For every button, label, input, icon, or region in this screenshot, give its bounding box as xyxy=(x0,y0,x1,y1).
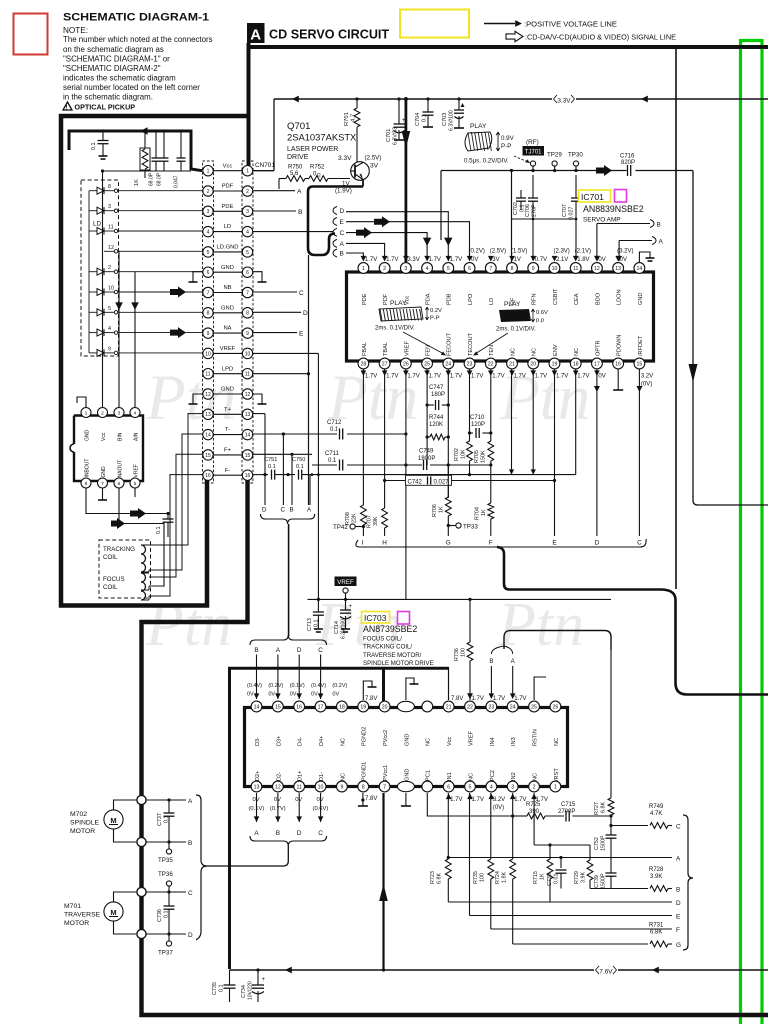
svg-text:R735: R735 xyxy=(473,871,479,884)
svg-text:23: 23 xyxy=(467,361,473,367)
resistor R715 xyxy=(549,845,551,859)
photodiode array dashed box xyxy=(81,180,119,356)
svg-text:DRIVE: DRIVE xyxy=(287,154,309,161)
svg-text:TP30: TP30 xyxy=(568,152,583,159)
wire 7.6V bus to Vcc IC703 xyxy=(384,667,449,670)
svg-text:3V: 3V xyxy=(370,163,379,170)
svg-text:INBOUT: INBOUT xyxy=(84,459,90,478)
wire LD row xyxy=(253,231,333,233)
svg-text:16: 16 xyxy=(615,361,621,367)
wire pin24 drop xyxy=(447,369,449,498)
svg-text:1.7V: 1.7V xyxy=(514,696,526,702)
svg-text:12: 12 xyxy=(245,392,251,398)
capacitor 0.1 coil xyxy=(166,512,169,515)
svg-text:27: 27 xyxy=(382,361,388,367)
svg-text:17: 17 xyxy=(318,704,324,710)
svg-text:indicates the schematic diagra: indicates the schematic diagram xyxy=(63,73,176,82)
capacitor C714 xyxy=(345,599,347,610)
wire PVcc1 7.6V xyxy=(382,793,384,970)
svg-text:3.3V: 3.3V xyxy=(407,257,419,263)
wire net A to pin2 xyxy=(346,243,385,260)
svg-text:(2.1V): (2.1V) xyxy=(575,249,591,255)
svg-text:C702: C702 xyxy=(513,202,519,215)
svg-text:0.1: 0.1 xyxy=(156,527,162,535)
svg-text:B: B xyxy=(676,887,680,894)
motor bus pads xyxy=(137,795,146,804)
svg-text:C752: C752 xyxy=(594,837,600,850)
svg-text:A: A xyxy=(276,647,281,654)
svg-text:LD: LD xyxy=(224,224,231,230)
svg-text:0.9V: 0.9V xyxy=(501,135,515,142)
VREF label box xyxy=(335,577,357,587)
svg-text:TECOUT: TECOUT xyxy=(468,332,474,356)
capacitor C703 xyxy=(458,99,460,110)
svg-text:2: 2 xyxy=(246,189,249,195)
svg-text:3.9K: 3.9K xyxy=(581,872,587,883)
svg-text:5: 5 xyxy=(469,784,472,790)
wire F- drop xyxy=(309,475,311,505)
svg-text:100: 100 xyxy=(480,873,486,882)
svg-text:C: C xyxy=(318,830,323,837)
wire pin NC2 drop xyxy=(533,793,535,845)
svg-text:12: 12 xyxy=(275,784,281,790)
svg-text:26: 26 xyxy=(403,361,409,367)
svg-text:22: 22 xyxy=(467,704,473,710)
svg-text:R750: R750 xyxy=(288,165,303,171)
svg-text:TEN: TEN xyxy=(489,345,495,356)
svg-text:0.6V: 0.6V xyxy=(536,310,548,316)
photodiode row wires to connector xyxy=(118,190,203,192)
svg-text:B: B xyxy=(276,830,280,837)
wire op-amp pin5 vref xyxy=(134,488,136,497)
op-amp pin4 wire xyxy=(134,272,136,407)
svg-text:C701: C701 xyxy=(386,129,392,142)
svg-text:CEA: CEA xyxy=(574,293,580,305)
svg-text:7: 7 xyxy=(383,784,386,790)
wire 7.6V feed thick loop xyxy=(230,668,384,969)
svg-text:CD SERVO CIRCUIT: CD SERVO CIRCUIT xyxy=(269,28,389,42)
svg-text:C751: C751 xyxy=(264,457,277,463)
test point TP35 xyxy=(168,842,170,849)
svg-text:MOTOR: MOTOR xyxy=(64,920,89,927)
svg-text:8: 8 xyxy=(246,311,249,317)
svg-text:2: 2 xyxy=(383,266,386,272)
svg-text:28: 28 xyxy=(361,361,367,367)
svg-text:21: 21 xyxy=(509,361,515,367)
resistor R708 xyxy=(361,505,367,525)
svg-text:C714: C714 xyxy=(334,621,340,634)
svg-text:B: B xyxy=(340,251,344,258)
svg-text:6: 6 xyxy=(246,270,249,276)
capacitor C735 xyxy=(229,970,231,985)
svg-text:F: F xyxy=(676,927,680,934)
svg-text:D: D xyxy=(297,830,302,837)
svg-text:D: D xyxy=(340,208,345,215)
svg-text:0V: 0V xyxy=(311,692,318,698)
IC701 yellow label box xyxy=(579,190,611,202)
svg-text:150K: 150K xyxy=(480,450,486,463)
resistor R705 xyxy=(488,441,494,461)
svg-text:P-P: P-P xyxy=(501,143,511,150)
svg-text:C707: C707 xyxy=(562,204,568,217)
svg-text:VREF: VREF xyxy=(468,730,474,746)
svg-text:9: 9 xyxy=(340,784,343,790)
svg-text:I: I xyxy=(362,540,364,547)
svg-text::POSITIVE VOLTAGE LINE: :POSITIVE VOLTAGE LINE xyxy=(524,19,617,28)
svg-text:68.0P: 68.0P xyxy=(157,172,163,186)
svg-text:TRACKING COIL/: TRACKING COIL/ xyxy=(363,644,412,651)
svg-text:TP33: TP33 xyxy=(463,524,478,531)
op-amp IC701 body xyxy=(347,272,654,361)
op-amp top pins xyxy=(81,408,91,418)
svg-text:C715: C715 xyxy=(561,802,576,808)
svg-text:1.7V: 1.7V xyxy=(450,374,462,380)
wire pin18 drop xyxy=(575,369,577,475)
svg-text:25: 25 xyxy=(531,704,537,710)
svg-text:COIL: COIL xyxy=(103,584,118,591)
wire 7.6V rail xyxy=(230,969,768,971)
svg-text:10: 10 xyxy=(108,286,114,292)
op-amp pin1 hook xyxy=(77,397,86,408)
svg-text:R752: R752 xyxy=(310,165,325,171)
svg-text:0.01: 0.01 xyxy=(554,874,560,885)
svg-text:ENV: ENV xyxy=(553,344,559,356)
svg-text:TP37: TP37 xyxy=(158,950,173,957)
svg-text:1.7V: 1.7V xyxy=(535,374,547,380)
capacitor C736 xyxy=(167,890,170,893)
svg-text:FOCUS COIL/: FOCUS COIL/ xyxy=(363,635,402,642)
svg-text:1.7V: 1.7V xyxy=(429,374,441,380)
wire PDE B xyxy=(253,210,296,212)
svg-text:22K: 22K xyxy=(351,513,357,523)
svg-text:B: B xyxy=(188,840,192,847)
wire PDF A xyxy=(253,190,295,192)
svg-text:D: D xyxy=(595,540,600,547)
row C right xyxy=(611,825,648,827)
row D xyxy=(448,901,672,903)
svg-text:3.3V: 3.3V xyxy=(338,155,352,162)
svg-text:C716: C716 xyxy=(620,154,635,160)
wire pin PC2 drop xyxy=(490,793,492,859)
svg-text:7.8V: 7.8V xyxy=(451,696,463,702)
svg-text:2: 2 xyxy=(207,189,210,195)
svg-text:D4-: D4- xyxy=(298,737,304,746)
wire pin IN1 drop xyxy=(447,793,449,858)
capacitor 68.0P a xyxy=(155,131,157,158)
svg-text:6: 6 xyxy=(207,270,210,276)
svg-text:C734: C734 xyxy=(241,985,247,998)
svg-text:15: 15 xyxy=(205,453,211,459)
svg-text:4: 4 xyxy=(134,410,137,416)
svg-text:TBAL: TBAL xyxy=(383,342,389,356)
svg-text:0.1: 0.1 xyxy=(268,464,276,470)
svg-text:D1-: D1- xyxy=(319,772,325,781)
svg-text:C737: C737 xyxy=(157,813,163,826)
svg-text:4: 4 xyxy=(490,784,493,790)
svg-text:CN701: CN701 xyxy=(255,162,275,169)
row A xyxy=(448,857,672,859)
svg-text:R715: R715 xyxy=(533,871,539,884)
svg-text:T-: T- xyxy=(225,427,230,433)
svg-text:10V/220: 10V/220 xyxy=(248,981,254,1000)
capacitor 0.1 optical xyxy=(102,131,104,140)
svg-text:(0.2V): (0.2V) xyxy=(268,683,283,689)
ground op-amp pin7 xyxy=(102,488,104,500)
wire op-amp pin8 out xyxy=(86,488,168,514)
tracking coil xyxy=(141,545,146,572)
wire pin19 drop xyxy=(554,369,556,536)
svg-text:A: A xyxy=(188,798,193,805)
svg-text:PC2: PC2 xyxy=(490,770,496,781)
svg-text:C: C xyxy=(281,507,286,514)
svg-text:0V: 0V xyxy=(471,257,478,263)
svg-text:0.1: 0.1 xyxy=(164,816,170,824)
wire thick 3.3V to IC701 Vcc pin3 xyxy=(404,99,407,262)
svg-text:0.047: 0.047 xyxy=(174,175,180,188)
svg-text:Vcc: Vcc xyxy=(101,432,107,441)
svg-text:0.1: 0.1 xyxy=(164,911,170,919)
svg-text:D1+: D1+ xyxy=(298,771,304,781)
svg-text:1.7V: 1.7V xyxy=(429,257,441,263)
coil box dashed xyxy=(99,540,151,598)
svg-text:1.7V: 1.7V xyxy=(556,374,568,380)
svg-text:C: C xyxy=(188,890,193,897)
motor driver IC703 body xyxy=(245,708,568,787)
ground IC703 PGND1 xyxy=(362,793,364,806)
svg-text:6: 6 xyxy=(468,266,471,272)
svg-text:D: D xyxy=(262,507,267,514)
svg-text:C749: C749 xyxy=(419,449,434,455)
wire row 474 extension xyxy=(318,474,575,476)
svg-text:4: 4 xyxy=(207,230,210,236)
svg-text:PDF: PDF xyxy=(222,184,234,190)
svg-text:13: 13 xyxy=(245,412,251,418)
resistor R727 xyxy=(608,798,614,815)
svg-text:11: 11 xyxy=(205,372,210,378)
svg-text:D: D xyxy=(188,932,193,939)
svg-text:7: 7 xyxy=(101,481,104,487)
wire thick loop right xyxy=(497,547,768,695)
capacitor C704 xyxy=(427,99,429,112)
svg-text:MOTOR: MOTOR xyxy=(70,828,95,835)
svg-text:/RST: /RST xyxy=(554,768,560,781)
svg-text:3: 3 xyxy=(246,209,249,215)
svg-text:100: 100 xyxy=(461,648,467,657)
svg-text::CD-DA/V-CD(AUDIO & VIDEO) SIG: :CD-DA/V-CD(AUDIO & VIDEO) SIGNAL LINE xyxy=(525,32,676,41)
wire Q701 collector to laser drive xyxy=(362,180,364,187)
connector CN701 dashed outlines xyxy=(203,161,214,483)
wire VREF rail xyxy=(308,598,612,600)
wire motor rows xyxy=(146,799,186,801)
svg-text:F-: F- xyxy=(225,468,231,474)
svg-text:C: C xyxy=(318,647,323,654)
svg-text:9: 9 xyxy=(207,331,210,337)
svg-text:14: 14 xyxy=(205,433,211,439)
svg-text:13: 13 xyxy=(254,784,260,790)
capacitor 0.047 xyxy=(180,131,182,158)
svg-text:B: B xyxy=(657,222,661,229)
svg-text:1.7V: 1.7V xyxy=(386,374,398,380)
svg-text:1500P: 1500P xyxy=(601,873,607,889)
svg-text:6.3V/100: 6.3V/100 xyxy=(341,619,347,639)
svg-text:7.6V: 7.6V xyxy=(599,968,613,975)
resistor R723 xyxy=(447,856,450,859)
net letters DECAB brace xyxy=(333,207,337,215)
svg-text:GND: GND xyxy=(638,293,644,305)
svg-text:C: C xyxy=(676,824,681,831)
svg-text:Vcc: Vcc xyxy=(447,736,453,746)
svg-text:7: 7 xyxy=(207,290,210,296)
svg-text:5: 5 xyxy=(246,250,249,256)
svg-text:VREF: VREF xyxy=(220,346,236,352)
svg-text:C747: C747 xyxy=(429,385,444,391)
svg-text:17: 17 xyxy=(594,361,600,367)
svg-text:1.7V: 1.7V xyxy=(386,257,398,263)
svg-text:(2.3V): (2.3V) xyxy=(553,249,569,255)
svg-text:8: 8 xyxy=(511,266,514,272)
svg-text:6: 6 xyxy=(447,784,450,790)
ground pin16 xyxy=(617,369,619,390)
capacitor C702 C706 C707 group xyxy=(511,171,513,263)
svg-text:SPINDLE: SPINDLE xyxy=(70,820,100,827)
svg-text:1.7V: 1.7V xyxy=(472,797,484,803)
svg-text:GND: GND xyxy=(221,305,234,311)
wire pin27 drop xyxy=(384,369,386,508)
resistor R735 xyxy=(488,859,494,879)
svg-text:C712: C712 xyxy=(327,420,342,426)
svg-text:1.7V: 1.7V xyxy=(577,374,589,380)
svg-text:R736: R736 xyxy=(454,648,460,661)
svg-text:GND: GND xyxy=(404,734,410,746)
svg-text:C: C xyxy=(340,230,345,237)
svg-text:0.027: 0.027 xyxy=(434,480,450,486)
wire PC1 stub xyxy=(427,793,512,816)
svg-text:16: 16 xyxy=(205,473,211,479)
label 3.3V bracket xyxy=(552,95,576,104)
svg-text:R731: R731 xyxy=(649,923,664,929)
svg-text:IC703: IC703 xyxy=(364,613,387,623)
svg-text:C704: C704 xyxy=(415,113,421,126)
svg-text:25: 25 xyxy=(424,361,430,367)
svg-text:1.8V: 1.8V xyxy=(577,257,589,263)
svg-text:12: 12 xyxy=(205,392,211,398)
svg-text:0V: 0V xyxy=(247,692,254,698)
focus coil xyxy=(141,573,146,600)
svg-text:H: H xyxy=(382,540,387,547)
svg-text:0V: 0V xyxy=(598,374,605,380)
svg-text:20: 20 xyxy=(530,361,536,367)
row B xyxy=(590,888,648,890)
capacitor C737 xyxy=(167,798,170,801)
svg-text:0.1: 0.1 xyxy=(91,143,97,151)
transistor Q701 xyxy=(351,162,370,181)
wire 3.3V rail xyxy=(274,98,768,100)
svg-text:PVcc1: PVcc1 xyxy=(383,765,389,781)
svg-text:1.7V: 1.7V xyxy=(407,374,419,380)
yellow highlight box header xyxy=(400,10,469,38)
svg-text:13: 13 xyxy=(205,412,211,418)
wire pin NC5 drop xyxy=(469,793,471,916)
svg-text:M701: M701 xyxy=(64,903,81,910)
warning triangle OPTICAL PICKUP xyxy=(63,102,72,110)
svg-text:B: B xyxy=(489,658,493,665)
IC703 yellow label box xyxy=(362,612,390,624)
svg-text:C750: C750 xyxy=(292,457,305,463)
svg-text:TRACKING: TRACKING xyxy=(103,546,135,553)
IC703 magenta box xyxy=(398,612,410,625)
svg-text:1: 1 xyxy=(85,410,88,416)
svg-text:(0V): (0V) xyxy=(493,805,504,811)
photo resistor 1K xyxy=(140,148,150,170)
svg-text:COIL: COIL xyxy=(103,554,118,561)
svg-text:in the schematic diagram.: in the schematic diagram. xyxy=(63,93,153,102)
svg-text:10K: 10K xyxy=(461,449,467,459)
svg-text:M: M xyxy=(110,908,116,917)
svg-text:6: 6 xyxy=(118,481,121,487)
wire F- vertical upper xyxy=(317,353,319,474)
svg-text:IN2: IN2 xyxy=(511,772,517,781)
svg-text:3.2V: 3.2V xyxy=(493,797,505,803)
svg-text:PGND1: PGND1 xyxy=(362,762,368,781)
svg-text:7.8V: 7.8V xyxy=(365,796,377,802)
svg-text:1.7V: 1.7V xyxy=(514,374,526,380)
svg-text:BIN: BIN xyxy=(117,432,123,441)
svg-text:M: M xyxy=(110,816,116,825)
svg-text:C: C xyxy=(299,290,304,297)
label 0.9V P-P xyxy=(496,132,500,151)
row E xyxy=(470,915,673,917)
svg-text:R704: R704 xyxy=(475,507,481,520)
wire T+ drop xyxy=(264,414,266,505)
svg-text:R706: R706 xyxy=(432,504,438,517)
svg-text:NA: NA xyxy=(223,326,231,332)
wire net B to pin1 xyxy=(346,253,363,260)
svg-text:R705: R705 xyxy=(474,450,480,463)
svg-text:18: 18 xyxy=(339,704,345,710)
svg-text:(0.4V): (0.4V) xyxy=(247,683,262,689)
svg-text:11: 11 xyxy=(245,372,250,378)
motor M702 xyxy=(104,810,123,829)
svg-text:13: 13 xyxy=(615,266,621,272)
resistor R706 xyxy=(447,465,449,497)
wire pin25 drop xyxy=(426,369,428,465)
svg-text:24: 24 xyxy=(445,361,451,367)
resistor R729 xyxy=(587,860,593,880)
svg-text:D2+: D2+ xyxy=(255,771,261,781)
svg-text:PDA: PDA xyxy=(425,293,431,305)
resistor R702 xyxy=(467,441,473,461)
svg-text:R727: R727 xyxy=(594,802,600,815)
wire op-amp pin6 out xyxy=(119,488,164,586)
svg-text:0.2V: 0.2V xyxy=(430,308,442,314)
wire T- drop xyxy=(282,434,284,505)
svg-text:PDOWN: PDOWN xyxy=(617,335,623,356)
wire net C to pin4 xyxy=(346,233,427,258)
svg-text:8: 8 xyxy=(362,784,365,790)
svg-text:D4+: D4+ xyxy=(319,736,325,746)
svg-text:Ptn: Ptn xyxy=(145,591,232,659)
wire RSTIN stub xyxy=(534,677,546,700)
svg-text:E: E xyxy=(676,914,680,921)
capacitor C742 xyxy=(385,480,406,482)
svg-text:SCHEMATIC DIAGRAM-1: SCHEMATIC DIAGRAM-1 xyxy=(63,12,209,24)
svg-text:2ms. 0.1V/DIV.: 2ms. 0.1V/DIV. xyxy=(496,327,536,333)
svg-text:Vcc: Vcc xyxy=(223,163,233,169)
svg-text:NC: NC xyxy=(468,773,474,781)
svg-text:C: C xyxy=(637,540,642,547)
svg-text:19: 19 xyxy=(552,361,558,367)
svg-text:11: 11 xyxy=(297,784,302,790)
